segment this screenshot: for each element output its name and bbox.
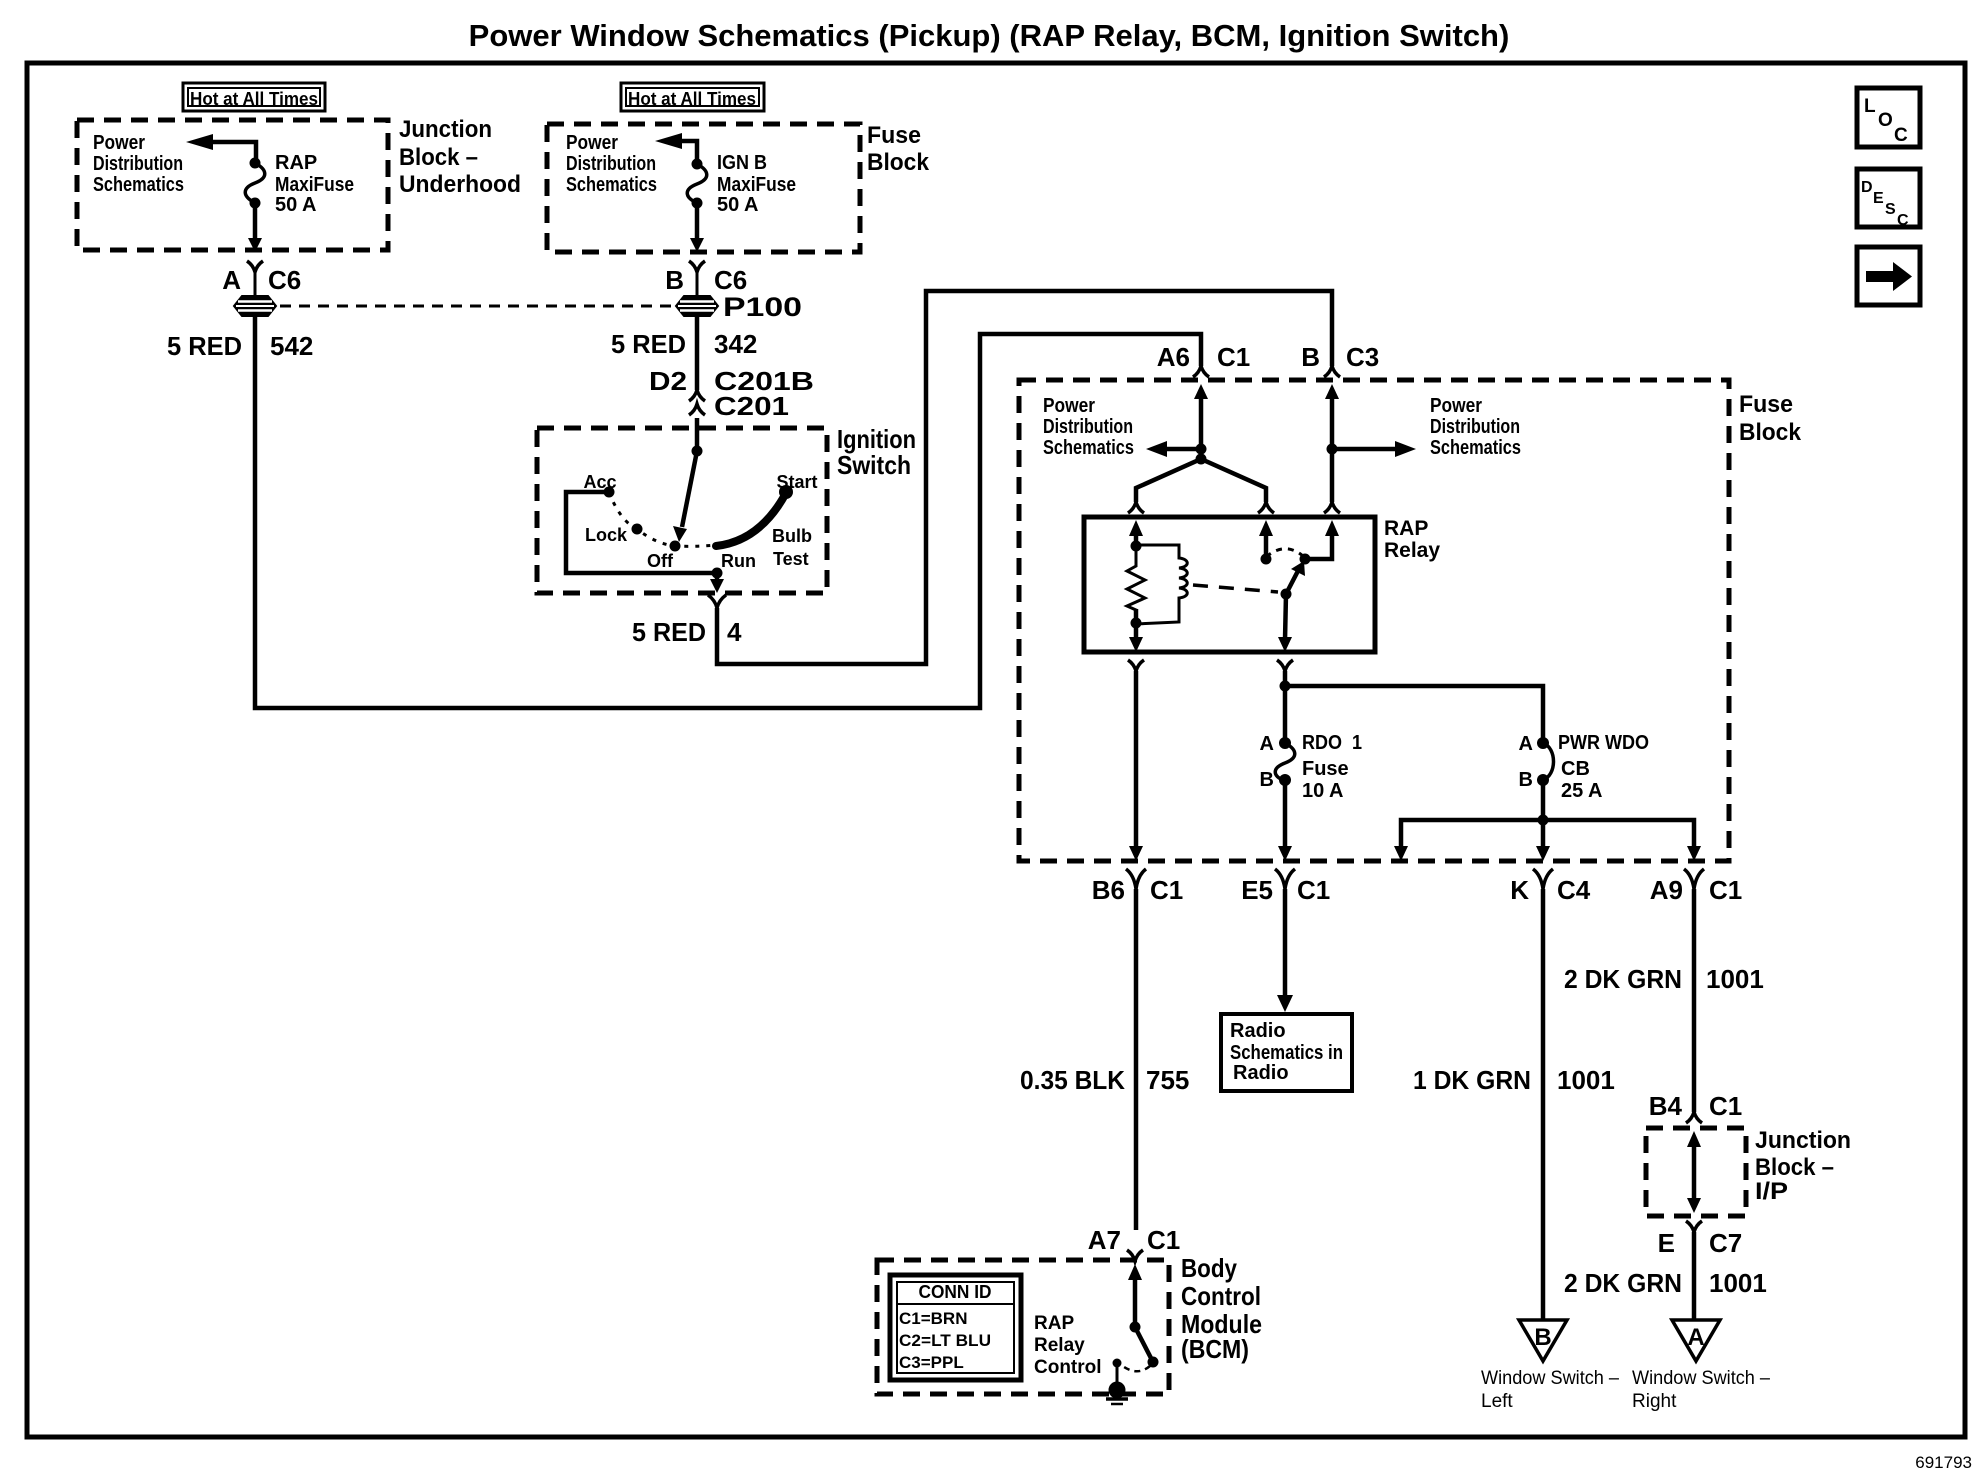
- svg-text:B: B: [1519, 769, 1533, 791]
- svg-text:Schematics in: Schematics in: [1230, 1042, 1343, 1064]
- svg-text:A9: A9: [1650, 875, 1683, 905]
- svg-text:Block –: Block –: [1755, 1154, 1834, 1181]
- svg-text:Distribution: Distribution: [1043, 416, 1133, 438]
- svg-text:Power: Power: [1430, 395, 1482, 417]
- svg-text:Body: Body: [1181, 1253, 1237, 1283]
- svg-text:MaxiFuse: MaxiFuse: [717, 174, 796, 196]
- svg-text:E: E: [1873, 190, 1884, 207]
- svg-text:B4: B4: [1649, 1091, 1683, 1121]
- svg-text:5 RED: 5 RED: [632, 617, 706, 647]
- svg-text:A6: A6: [1157, 342, 1190, 372]
- svg-text:PWR WDO: PWR WDO: [1558, 732, 1649, 754]
- svg-text:C201: C201: [714, 391, 789, 421]
- svg-text:C2=LT BLU: C2=LT BLU: [899, 1331, 991, 1350]
- svg-text:Power Window Schematics (Picku: Power Window Schematics (Pickup) (RAP Re…: [469, 18, 1510, 53]
- svg-text:A: A: [222, 265, 241, 295]
- svg-text:RAP: RAP: [1384, 517, 1428, 540]
- svg-text:Run: Run: [721, 551, 756, 571]
- svg-text:Lock: Lock: [585, 525, 628, 545]
- svg-text:Schematics: Schematics: [566, 174, 657, 196]
- svg-text:Schematics: Schematics: [1430, 437, 1521, 459]
- svg-text:C4: C4: [1557, 875, 1591, 905]
- svg-text:CONN ID: CONN ID: [919, 1282, 992, 1302]
- svg-text:0.35 BLK: 0.35 BLK: [1020, 1065, 1125, 1095]
- svg-text:RAP: RAP: [275, 152, 317, 174]
- svg-text:5 RED: 5 RED: [167, 331, 242, 361]
- svg-text:C1=BRN: C1=BRN: [899, 1309, 968, 1328]
- svg-text:C: C: [1897, 212, 1909, 229]
- svg-text:L: L: [1864, 96, 1876, 117]
- svg-text:10 A: 10 A: [1302, 780, 1344, 802]
- svg-text:Schematics: Schematics: [93, 174, 184, 196]
- svg-text:50 A: 50 A: [717, 194, 759, 216]
- svg-text:342: 342: [714, 329, 757, 359]
- svg-text:B: B: [1534, 1324, 1551, 1351]
- svg-text:C1: C1: [1709, 875, 1742, 905]
- svg-text:Window Switch –: Window Switch –: [1481, 1368, 1619, 1389]
- svg-text:B: B: [1260, 769, 1274, 791]
- svg-text:C7: C7: [1709, 1228, 1742, 1258]
- svg-text:Junction: Junction: [1755, 1127, 1851, 1154]
- svg-text:Left: Left: [1481, 1391, 1513, 1412]
- svg-text:K: K: [1510, 875, 1529, 905]
- svg-text:50 A: 50 A: [275, 194, 317, 216]
- svg-text:691793: 691793: [1915, 1453, 1972, 1472]
- svg-text:A: A: [1519, 733, 1533, 755]
- svg-text:Hot at All Times: Hot at All Times: [190, 89, 318, 109]
- svg-text:S: S: [1885, 201, 1896, 218]
- svg-text:1 DK GRN: 1 DK GRN: [1413, 1065, 1531, 1095]
- svg-text:Radio: Radio: [1233, 1062, 1289, 1084]
- svg-text:Distribution: Distribution: [566, 153, 656, 175]
- svg-text:I/P: I/P: [1755, 1178, 1788, 1205]
- svg-text:C1: C1: [1147, 1225, 1180, 1255]
- svg-text:A7: A7: [1088, 1225, 1121, 1255]
- svg-text:4: 4: [727, 617, 742, 647]
- svg-text:Control: Control: [1034, 1357, 1102, 1378]
- svg-text:O: O: [1878, 110, 1893, 131]
- svg-text:25 A: 25 A: [1561, 780, 1603, 802]
- svg-text:Schematics: Schematics: [1043, 437, 1134, 459]
- svg-text:C6: C6: [268, 265, 301, 295]
- svg-text:Start: Start: [776, 472, 817, 492]
- svg-text:RAP: RAP: [1034, 1313, 1074, 1334]
- svg-text:A: A: [1260, 733, 1274, 755]
- svg-text:Block: Block: [867, 149, 930, 176]
- svg-text:542: 542: [270, 331, 313, 361]
- svg-text:Test: Test: [773, 549, 809, 569]
- svg-text:A: A: [1687, 1324, 1704, 1351]
- svg-text:Window Switch –: Window Switch –: [1632, 1368, 1770, 1389]
- svg-text:(BCM): (BCM): [1181, 1334, 1249, 1364]
- svg-text:Fuse: Fuse: [867, 122, 921, 149]
- svg-text:D: D: [1861, 179, 1873, 196]
- svg-text:C1: C1: [1709, 1091, 1742, 1121]
- svg-text:B6: B6: [1092, 875, 1125, 905]
- svg-text:C: C: [1894, 125, 1908, 146]
- svg-text:2 DK GRN: 2 DK GRN: [1564, 964, 1682, 994]
- svg-text:Fuse: Fuse: [1739, 391, 1793, 418]
- svg-text:5 RED: 5 RED: [611, 329, 686, 359]
- svg-text:P100: P100: [723, 292, 802, 322]
- svg-text:Block –: Block –: [399, 144, 478, 171]
- svg-text:B: B: [665, 265, 684, 295]
- svg-text:CB: CB: [1561, 758, 1590, 780]
- svg-text:RDO 1: RDO 1: [1302, 732, 1362, 754]
- svg-text:755: 755: [1146, 1065, 1189, 1095]
- svg-text:Bulb: Bulb: [772, 526, 812, 546]
- svg-text:Hot at All Times: Hot at All Times: [628, 89, 756, 109]
- svg-text:Relay: Relay: [1034, 1335, 1085, 1356]
- svg-text:Power: Power: [93, 132, 145, 154]
- svg-text:1001: 1001: [1709, 1268, 1767, 1298]
- svg-text:Power: Power: [1043, 395, 1095, 417]
- svg-text:Right: Right: [1632, 1391, 1677, 1412]
- svg-text:MaxiFuse: MaxiFuse: [275, 174, 354, 196]
- svg-text:Off: Off: [647, 551, 674, 571]
- svg-text:IGN B: IGN B: [717, 152, 767, 174]
- svg-text:C6: C6: [714, 265, 747, 295]
- svg-text:C1: C1: [1297, 875, 1330, 905]
- svg-text:E5: E5: [1241, 875, 1273, 905]
- svg-text:Distribution: Distribution: [93, 153, 183, 175]
- svg-text:Relay: Relay: [1384, 539, 1440, 562]
- svg-text:Power: Power: [566, 132, 618, 154]
- svg-text:2 DK GRN: 2 DK GRN: [1564, 1268, 1682, 1298]
- svg-text:D2: D2: [649, 366, 687, 396]
- svg-text:Junction: Junction: [399, 116, 492, 143]
- svg-text:1001: 1001: [1706, 964, 1764, 994]
- svg-text:C1: C1: [1217, 342, 1250, 372]
- svg-text:B: B: [1301, 342, 1320, 372]
- svg-text:C3: C3: [1346, 342, 1379, 372]
- svg-text:C1: C1: [1150, 875, 1183, 905]
- svg-text:Distribution: Distribution: [1430, 416, 1520, 438]
- svg-text:1001: 1001: [1557, 1065, 1615, 1095]
- svg-text:E: E: [1658, 1228, 1675, 1258]
- svg-text:Block: Block: [1739, 419, 1802, 446]
- svg-text:Radio: Radio: [1230, 1020, 1286, 1042]
- svg-text:Underhood: Underhood: [399, 171, 521, 198]
- svg-text:C3=PPL: C3=PPL: [899, 1353, 964, 1372]
- svg-text:Control: Control: [1181, 1281, 1261, 1311]
- svg-text:Fuse: Fuse: [1302, 758, 1349, 780]
- svg-text:Switch: Switch: [837, 450, 911, 480]
